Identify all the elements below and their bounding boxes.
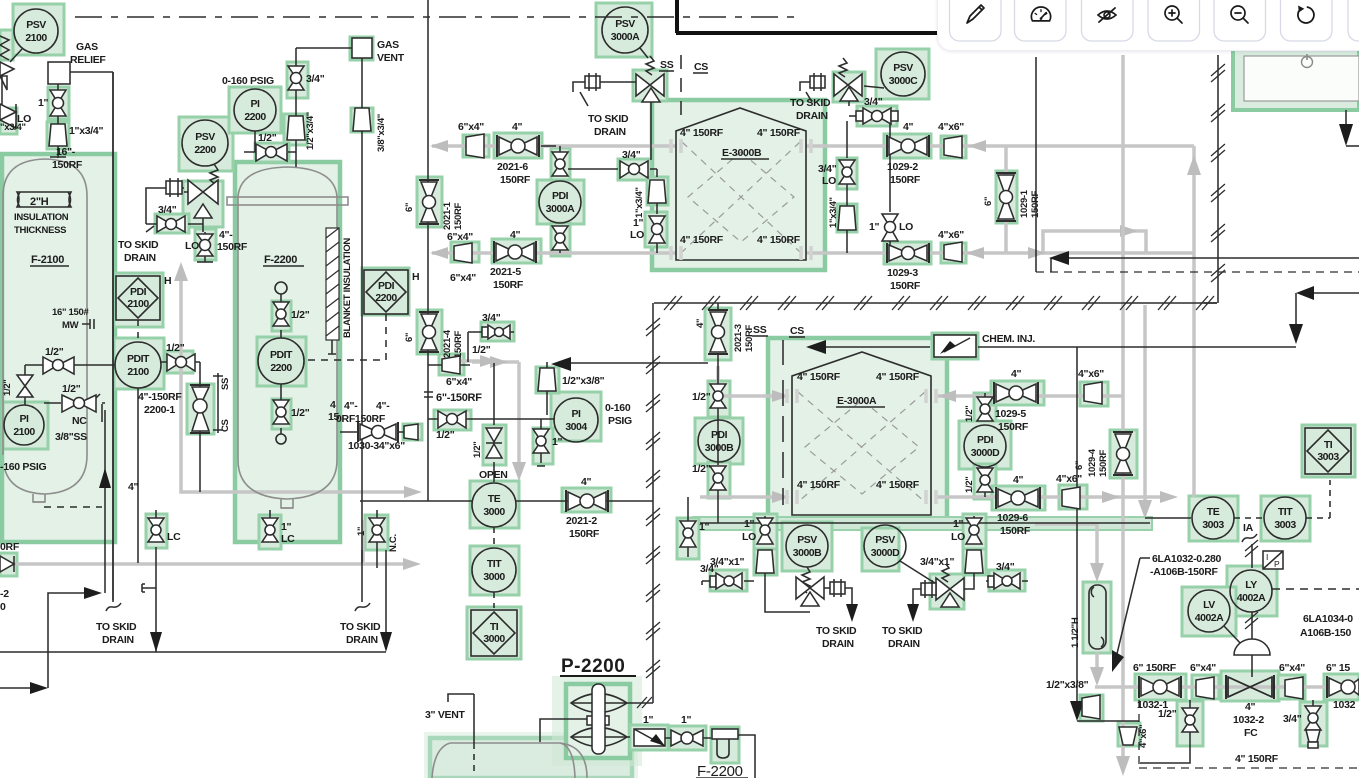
- chem injection line y347: [806, 340, 1296, 721]
- valve 2200-1: [138, 362, 231, 492]
- instrument PSV-3000D: [864, 525, 938, 585]
- instrument PDI-2200 square: [306, 270, 419, 360]
- exchanger E-3000A: [787, 352, 936, 515]
- globe valve 1" after check: [665, 714, 711, 746]
- bottom-left L route: [0, 587, 102, 694]
- chain 1" LO x974: [920, 516, 983, 588]
- valve 2021-1: [404, 180, 464, 230]
- valve 1029-5: [994, 368, 1038, 433]
- black arrow line y362: [551, 357, 708, 371]
- wire gray x363: [361, 520, 365, 562]
- pencil icon: [967, 5, 984, 23]
- wire x428 vertical: [427, 0, 429, 501]
- check valve at pump discharge: [634, 714, 665, 746]
- reducer 1"x3/4": [49, 124, 103, 171]
- highlighted pipe run to TE-3003: [693, 517, 1152, 530]
- chain 3/4 LO x847: [818, 121, 856, 253]
- top-right highlighted drawing frame: [1233, 48, 1359, 110]
- pump P-2200: [540, 656, 653, 754]
- valve 3/4 y169: [620, 149, 648, 178]
- control valve actuator dome: [1234, 639, 1270, 677]
- hatched existing line vertical x653: [646, 303, 660, 703]
- drains to y652: [99, 72, 392, 652]
- rupture square: [48, 62, 113, 600]
- valve N.C.: [356, 510, 399, 568]
- instrument PDI-3000A chain: [539, 146, 581, 253]
- instrument PSV-2100: [10, 9, 58, 62]
- cut texts left edge bottom: [0, 541, 20, 613]
- angle relief valve 2200: [184, 180, 218, 232]
- gauge icon: [1031, 7, 1050, 21]
- instrument TIT-3003: [1234, 480, 1330, 539]
- valve 1/2" h to PI2200: [244, 131, 296, 161]
- wire gray header y253: [430, 146, 1194, 259]
- vessel F-2100 highlight: [2, 154, 115, 542]
- wire gray LV station feed x1098: [1035, 524, 1104, 686]
- valve 3/4 small y332: [468, 312, 514, 362]
- instrument LY-4002A: [1230, 570, 1359, 612]
- angle relief 3000B: [796, 577, 830, 606]
- wire black y518 into TE3003: [700, 518, 1191, 523]
- tick marks 6-150RF: [424, 392, 482, 404]
- valve 3/4 y169 left of E3000B (3/4" with LO) x651 to row253: [656, 252, 658, 254]
- tubing y169: [568, 169, 657, 177]
- reducer 4x6 y497: [1056, 473, 1082, 509]
- IA signal down: [1242, 534, 1258, 568]
- control valve 1032-2: [1226, 675, 1274, 739]
- valve 3/4 globe y116: [849, 96, 898, 124]
- valve 2021-2: [566, 476, 608, 540]
- hatched existing line vertical x1218: [1204, 55, 1225, 303]
- reducer 6x4 row253: [447, 231, 476, 284]
- hatched existing line horizontal y303: [654, 296, 1217, 310]
- capsule strainer: [146, 178, 184, 198]
- vessel F-2100: [3, 159, 102, 507]
- reducer 6x4: [1190, 662, 1216, 699]
- valve 1/2" NC: [62, 383, 102, 427]
- labels 6LA1032: [1112, 553, 1222, 672]
- instrument TI-3000: [471, 592, 517, 656]
- valve 1/2" h: [43, 346, 74, 374]
- blanket insulation hatch: [326, 228, 353, 354]
- angle relief 3000A: [636, 56, 664, 160]
- reducer 3/8x3/4: [353, 108, 387, 563]
- valve 1/2 below 1032-1: [1140, 700, 1198, 763]
- angle relief 3000C: [834, 58, 862, 106]
- valve 1032-1: [1133, 662, 1181, 711]
- valve 1" vertical: [38, 90, 66, 124]
- to skid drain texts bottom left: [96, 621, 137, 646]
- reducer 1/2x3/8 bottom: [1046, 679, 1100, 719]
- zoom-out icon: [1231, 6, 1248, 23]
- valve 3/4 bottom right: [1283, 700, 1321, 748]
- reducer 4x6 y393: [1078, 368, 1104, 404]
- instrument PDI-2100 square: [116, 275, 171, 338]
- valve 1029-6: [996, 474, 1040, 537]
- wire black y293 elbow down: [1289, 286, 1359, 344]
- instrument TI-3003: [1305, 428, 1351, 474]
- reducer 4x6 row146: [938, 121, 964, 158]
- dashed boundary bottom right: [1139, 700, 1359, 768]
- wire TE3000 row y501: [360, 500, 653, 502]
- top right frame power icon: [1302, 54, 1313, 68]
- wire gray short y361: [455, 355, 498, 367]
- to skid drain 2200: [118, 198, 159, 264]
- F-2200 label: [263, 254, 304, 266]
- wire gray vertical x519: [472, 356, 526, 481]
- capsule strainer 3000C: [800, 73, 825, 91]
- vent valve OPEN: [472, 363, 508, 482]
- exchanger E-3000A highlight: [768, 338, 947, 522]
- valve 1/2" v: [2, 375, 33, 397]
- instrument TE-3000: [472, 483, 516, 527]
- wire dashed y272: [1036, 271, 1359, 273]
- wire gray E-3000A top nozzles y396: [718, 366, 1123, 402]
- gas vent square: [352, 38, 405, 108]
- SS CS boundary at E-3000A: [752, 324, 805, 505]
- instrument PI-3004: [554, 398, 632, 442]
- gas relief text: [70, 41, 106, 66]
- valve 1029-4 vertical on x1123: [1074, 432, 1133, 477]
- wire gray riser x181 with up arrow: [174, 262, 422, 498]
- instrument LV-4002A: [1188, 590, 1243, 646]
- wire black y258 with left arrow: [1036, 57, 1359, 272]
- valve 1029-3: [887, 243, 929, 292]
- valve 2021-3 vertical: [695, 303, 755, 465]
- valve 1/2" y419: [428, 411, 554, 441]
- valve 1032-3 right cut: [1326, 662, 1359, 711]
- reducer 6x4 right: [1279, 662, 1305, 699]
- instrument TIT-3000: [472, 527, 516, 592]
- drain 1" LC F-2200: [262, 510, 295, 545]
- wire gray bottom header y563: [0, 558, 421, 570]
- valve above PDIT2200: [273, 282, 310, 338]
- reducer 6x4 below 2021-4: [428, 356, 472, 388]
- 4" label above gray: [128, 481, 139, 493]
- valve 1029-2: [887, 121, 929, 186]
- tank F-2200 highlight: [424, 732, 638, 778]
- sample capsule 1-1/2 H: [1089, 585, 1106, 649]
- valve 1/2" right of PDIT2100: [161, 342, 200, 371]
- tank F-2200 (horizontal): [425, 694, 755, 778]
- valve 2021-6: [497, 121, 556, 186]
- capsule strainer 3000B: [830, 579, 858, 622]
- valve LO (cut) at left edge: [0, 104, 31, 128]
- instrument TE-3003: [1192, 497, 1234, 539]
- valve 2021-4: [404, 312, 464, 358]
- valve 2021-5: [490, 229, 536, 291]
- signal with hashes to valve: [1245, 612, 1258, 640]
- pump P-2200 highlight: [552, 676, 642, 766]
- instrument PDIT-2100: [115, 342, 161, 563]
- I/P converter: [1263, 551, 1283, 569]
- valves 1030-3 cluster: [336, 400, 418, 452]
- valve 3/4" v at x296: [288, 48, 352, 116]
- instrument PSV-3000A: [602, 7, 648, 58]
- exchanger E-3000B: [671, 108, 811, 260]
- adjacent sheet border corner: [676, 0, 937, 33]
- vertical 1-1/2"H label: [1070, 617, 1081, 648]
- capsule strainer 3000A: [573, 73, 636, 92]
- instrument PDI-3000B chain: [692, 384, 740, 523]
- angle relief 3000D: [936, 564, 974, 607]
- valve below PDIT2200: [273, 384, 340, 444]
- instrument PSV-3000B: [786, 525, 828, 593]
- match line dash-dot top: [75, 16, 795, 18]
- instrument PDIT-2200: [258, 338, 304, 384]
- valve 1" drain x688: [680, 497, 710, 557]
- reducer 1/2x3/8: [538, 362, 605, 415]
- chain 1" LO x765: [710, 516, 810, 612]
- vessel F-2200: [227, 167, 348, 508]
- wire gray vertical x1145: [1138, 305, 1152, 519]
- vessel F-2200 highlight: [235, 162, 340, 542]
- instrument PSV-2200: [182, 120, 228, 184]
- filter pot: [712, 729, 738, 758]
- tubing row y365: [25, 365, 115, 405]
- wire gray header y146: [430, 140, 1201, 497]
- instrument PDI-3000D chain: [964, 393, 1006, 497]
- reducer 6x4 row146: [458, 121, 484, 158]
- instrument PSV-3000C: [864, 52, 925, 96]
- zoom-in icon: [1165, 6, 1182, 23]
- wire gray E-3000A bottom nozzles y497: [700, 491, 1178, 503]
- reducer 4x6 row253: [938, 229, 964, 262]
- SS CS labels 3000A: [659, 55, 708, 115]
- exchanger E-3000B highlight: [652, 100, 825, 270]
- arrow down from frame: [1339, 110, 1359, 146]
- capsule strainer 3000D: [907, 580, 936, 622]
- chem inj text: [982, 333, 1035, 345]
- wire gray vertical x1123: [1116, 55, 1130, 776]
- valve 3/4": [146, 204, 203, 232]
- eye-off icon: [1098, 8, 1116, 22]
- instrument PI-2200: [222, 75, 276, 131]
- drain LC F-2100: [148, 510, 181, 543]
- reducer 4x6 small x1128: [1119, 725, 1149, 748]
- instrument PI-2100: [4, 405, 44, 445]
- valve 1" below: [533, 419, 563, 466]
- valve 1029-1 vertical: [983, 173, 1041, 221]
- wire black bottom left header y652: [0, 651, 386, 653]
- chain 1" LO x890: [869, 124, 913, 253]
- chem injection arrow box: [934, 335, 976, 357]
- wire gray bypass loop y231: [1043, 225, 1146, 252]
- valve LO vertical: [185, 229, 248, 262]
- valve 3/4 left: [700, 563, 754, 589]
- reducer 1/2x3/4 v: [287, 112, 316, 167]
- rotate icon: [1298, 6, 1314, 23]
- F-2100 texts: [0, 212, 94, 473]
- relief valve (cut) at left edge: [0, 36, 14, 108]
- wire gray bottom right header y687: [1095, 685, 1359, 689]
- F-2100 insulation banner: [17, 192, 71, 208]
- valve 3/4 right: [986, 561, 1028, 589]
- reducer + LO chain x657: [630, 180, 666, 253]
